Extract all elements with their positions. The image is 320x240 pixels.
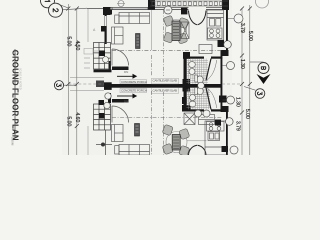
svg-text:5.00: 5.00 bbox=[244, 109, 250, 119]
svg-text:3.79: 3.79 bbox=[235, 121, 241, 131]
svg-text:1.30: 1.30 bbox=[239, 59, 245, 69]
svg-text:3.79: 3.79 bbox=[239, 23, 245, 33]
svg-text:5.00: 5.00 bbox=[247, 31, 253, 41]
svg-text:1.30: 1.30 bbox=[235, 97, 241, 107]
svg-text:1:50M: 1:50M bbox=[11, 137, 15, 146]
svg-text:SCALE AS NOTED: SCALE AS NOTED bbox=[19, 68, 22, 90]
